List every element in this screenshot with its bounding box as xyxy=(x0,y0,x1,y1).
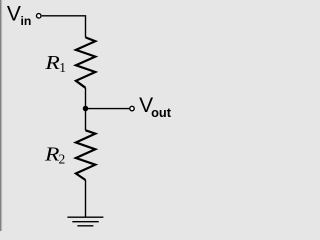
label Vout xyxy=(139,94,172,120)
svg-text:R: R xyxy=(44,51,60,74)
label R1 xyxy=(44,51,66,75)
terminal Vout (open circle) xyxy=(130,106,135,111)
svg-text:in: in xyxy=(21,14,32,28)
ground symbol line 3 xyxy=(77,225,93,227)
svg-text:V: V xyxy=(7,3,21,26)
terminal Vin (open circle) xyxy=(37,14,42,19)
ground symbol line 1 xyxy=(67,216,103,218)
page left shadow edge xyxy=(0,0,3,231)
wire node to R2 top xyxy=(85,109,87,131)
label R2 xyxy=(44,142,65,166)
svg-text:2: 2 xyxy=(59,152,66,167)
resistor R1 zigzag xyxy=(76,37,95,87)
node junction dot xyxy=(83,106,89,112)
ground symbol line 2 xyxy=(72,221,98,223)
svg-text:1: 1 xyxy=(59,60,66,75)
wire R2 bottom to ground xyxy=(85,180,87,217)
svg-text:out: out xyxy=(151,105,172,120)
resistor R2 zigzag xyxy=(76,130,95,180)
wire R1 bottom to node xyxy=(85,88,87,109)
label Vin xyxy=(7,3,31,28)
wire node to Vout xyxy=(86,108,130,110)
wire Vin to R1 top (corner) xyxy=(42,16,86,38)
